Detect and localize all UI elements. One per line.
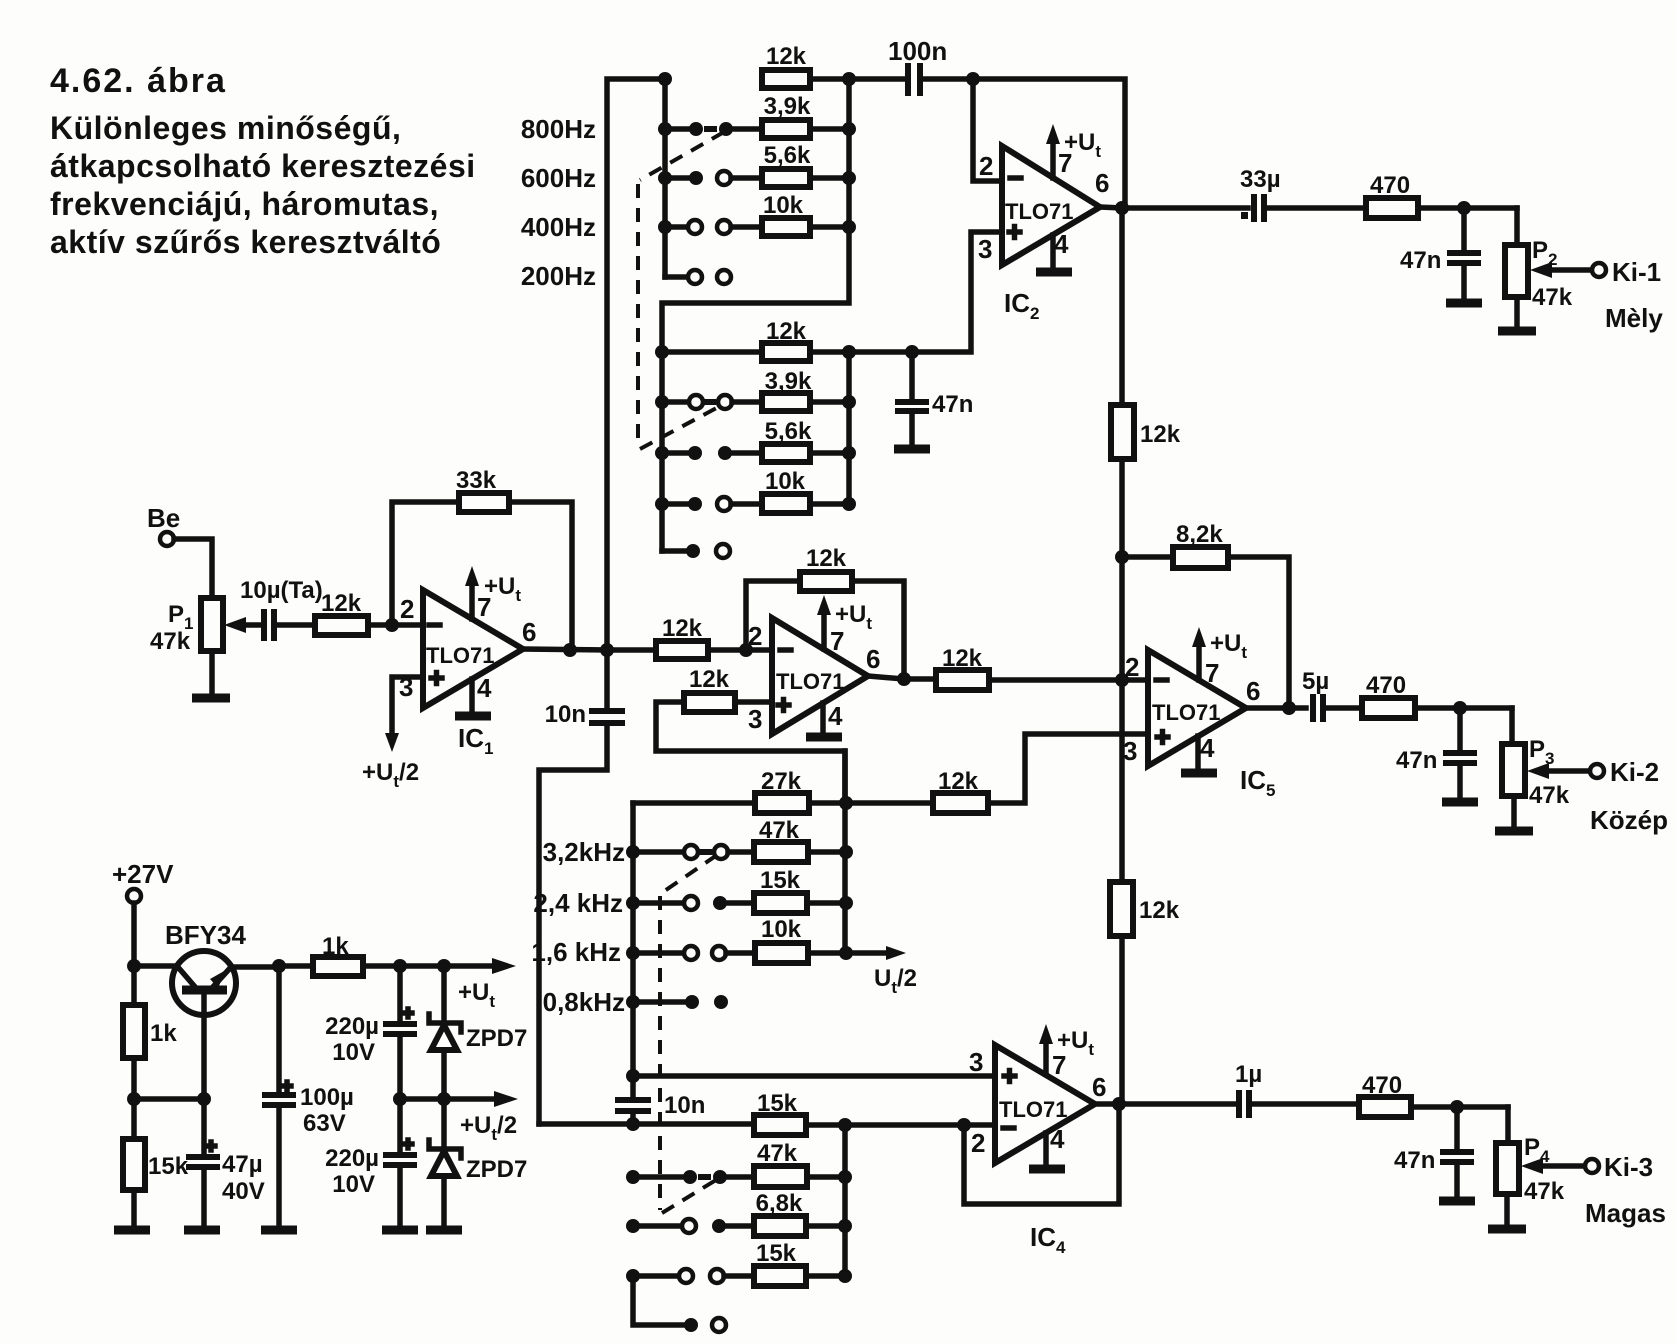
vertical bus IC2 out down to IC4 — [1119, 208, 1125, 1104]
IC1 pin4 ground — [469, 679, 475, 712]
svg-text:2,4 kHz: 2,4 kHz — [533, 888, 623, 918]
svg-text:1µ: 1µ — [1235, 1061, 1262, 1088]
svg-text:47k: 47k — [757, 1140, 798, 1167]
svg-text:10k: 10k — [763, 192, 804, 219]
svg-text:2: 2 — [971, 1128, 985, 1158]
IC2 pin4 ground — [1050, 235, 1056, 268]
node IC4 pin2 — [957, 1118, 971, 1132]
Ut/2 arrow at bank3 — [846, 950, 890, 956]
capacitor 5µ — [1302, 668, 1362, 722]
svg-text:15k: 15k — [760, 867, 801, 894]
node base junction — [127, 1092, 141, 1106]
capacitor 47n (Ki-1) — [1400, 208, 1482, 303]
node Ki-2 filter — [1453, 701, 1467, 715]
svg-text:4: 4 — [1054, 229, 1069, 259]
wire Be to P1 — [174, 539, 212, 598]
wire base line — [134, 1096, 204, 1102]
svg-text:+Ut/2: +Ut/2 — [362, 759, 419, 791]
resistor 12k (input to IC1) — [315, 590, 423, 635]
svg-text:Közép: Közép — [1590, 805, 1668, 835]
wire IC1 output — [523, 649, 607, 650]
svg-text:6,8k: 6,8k — [756, 1190, 803, 1217]
op-amp U4 IC4 TLO71 — [969, 1024, 1106, 1257]
svg-text:3: 3 — [978, 234, 992, 264]
wire Ut/2 rail — [400, 1096, 492, 1102]
svg-text:Ki-1: Ki-1 — [1612, 257, 1661, 287]
op-amp U2 IC2 TLO71 — [978, 124, 1109, 323]
svg-text:10n: 10n — [545, 701, 586, 728]
svg-text:10n: 10n — [664, 1092, 705, 1119]
node IC1 pin2 — [385, 618, 399, 632]
IC4 +Ut supply arrow — [1043, 1040, 1049, 1074]
svg-text:6: 6 — [866, 644, 880, 674]
resistor 470 (Ki-2) — [1362, 672, 1512, 718]
svg-text:2: 2 — [400, 594, 414, 624]
wire IC5 pin3 staircase from bank3 — [988, 734, 1148, 803]
U3 pin4 ground — [820, 703, 826, 733]
resistor 27k bank3 row0 — [633, 768, 933, 813]
switch row bank2-2 (3,9k) — [655, 368, 849, 411]
capacitor 47n (Ki-2) — [1396, 708, 1478, 802]
resistor 470 (Ki-3) — [1359, 1072, 1508, 1117]
svg-text:7: 7 — [1052, 1050, 1066, 1080]
svg-text:220µ: 220µ — [325, 1145, 379, 1172]
title text block — [50, 62, 476, 260]
wire IC4 output — [1095, 1101, 1234, 1107]
svg-text:TLO71: TLO71 — [426, 643, 494, 668]
svg-text:47k: 47k — [150, 628, 191, 655]
svg-text:0,8kHz: 0,8kHz — [543, 987, 625, 1017]
svg-text:P3: P3 — [1529, 736, 1554, 768]
switch row bank2-4 (10k) — [655, 468, 849, 513]
svg-text:4: 4 — [1200, 733, 1215, 763]
svg-text:frekvenciájú, háromutas,: frekvenciájú, háromutas, — [50, 186, 439, 222]
resistor 8,2k feedback IC5 — [1122, 521, 1289, 708]
node 220µ upper — [393, 959, 407, 973]
svg-text:12k: 12k — [806, 545, 847, 572]
svg-text:7: 7 — [830, 626, 844, 656]
IC5 +Ut supply arrow — [1196, 643, 1202, 680]
transistor Q1 BFY34 — [134, 920, 279, 1099]
svg-text:47k: 47k — [1524, 1178, 1565, 1205]
switch row bank2-5 (empty) — [662, 544, 730, 558]
svg-text:2: 2 — [1125, 652, 1139, 682]
switch row bank2-3 (5,6k) — [655, 418, 849, 462]
svg-text:átkapcsolható keresztezési: átkapcsolható keresztezési — [50, 148, 476, 184]
svg-text:10V: 10V — [332, 1039, 375, 1066]
svg-text:TLO71: TLO71 — [1152, 700, 1220, 725]
wire vertical bus from IC1 output up to filter bank 1 — [607, 79, 665, 650]
svg-text:5µ: 5µ — [1302, 668, 1329, 695]
svg-text:12k: 12k — [1140, 421, 1181, 448]
resistor 12k feedback U3 — [746, 545, 904, 679]
resistor 12k bank2 row0 — [655, 318, 912, 361]
wire bank3 rail to IC4 pin3 — [633, 1073, 995, 1079]
switch row 2,4kHz — [626, 867, 846, 913]
svg-text:15k: 15k — [756, 1240, 797, 1267]
node 47n junction — [905, 345, 919, 359]
wire IC2 output — [1100, 207, 1248, 208]
capacitor 1µ — [1235, 1061, 1359, 1118]
svg-text:7: 7 — [1205, 658, 1219, 688]
node 8,2k junction — [1115, 550, 1129, 564]
svg-text:4.62. ábra: 4.62. ábra — [50, 62, 227, 100]
capacitor 47n (Ki-3) — [1394, 1107, 1475, 1201]
bank3 right rail — [842, 751, 848, 953]
svg-text:6: 6 — [1246, 676, 1260, 706]
capacitor 10µ(Ta) — [240, 577, 323, 641]
svg-text:33k: 33k — [456, 467, 497, 494]
svg-text:100µ: 100µ — [300, 1084, 354, 1111]
resistor 12k U3 out — [936, 645, 989, 690]
svg-text:33µ: 33µ — [1240, 166, 1281, 193]
svg-text:3,2kHz: 3,2kHz — [543, 837, 625, 867]
op-amp U3 TLO71 (middle) — [748, 595, 880, 737]
op-amp U5 IC5 TLO71 — [1123, 627, 1275, 800]
svg-text:TLO71: TLO71 — [776, 669, 844, 694]
svg-text:5,6k: 5,6k — [764, 142, 811, 169]
svg-text:4: 4 — [1050, 1124, 1065, 1154]
svg-text:P2: P2 — [1532, 237, 1557, 269]
svg-text:IC1: IC1 — [458, 723, 493, 758]
wire 100n node down to IC2 pin2 — [973, 79, 1002, 181]
node Ki-3 filter — [1450, 1100, 1464, 1114]
svg-text:40V: 40V — [222, 1178, 265, 1205]
svg-text:47n: 47n — [1396, 747, 1437, 774]
svg-text:Be: Be — [147, 503, 180, 533]
svg-text:12k: 12k — [766, 43, 807, 70]
svg-text:220µ: 220µ — [325, 1013, 379, 1040]
svg-text:10k: 10k — [765, 468, 806, 495]
potentiometer P4 47k — [1488, 1107, 1599, 1229]
svg-text:Ki-3: Ki-3 — [1604, 1152, 1653, 1182]
resistor 12k bank3 to IC5 pin3 — [933, 768, 988, 813]
svg-text:200Hz: 200Hz — [521, 261, 596, 291]
resistor 15k (base divider lower) — [114, 1099, 189, 1230]
U3 +Ut supply arrow — [821, 611, 827, 649]
bank4 right rail — [842, 1125, 848, 1276]
switch row 6,8k — [626, 1190, 845, 1236]
node IC4 pin3 junction — [626, 1069, 640, 1083]
+Ut/2 arrow (supply output) — [494, 1091, 518, 1107]
capacitor 100µ 63V — [261, 966, 354, 1230]
svg-text:12k: 12k — [689, 666, 730, 693]
capacitor 100n (IC2 feedback) — [849, 36, 1125, 209]
svg-text:3,9k: 3,9k — [764, 93, 811, 120]
capacitor 220µ 10V (upper) — [325, 966, 417, 1099]
+27V terminal — [112, 859, 174, 966]
svg-text:Mèly: Mèly — [1605, 303, 1663, 333]
switch row 47k — [626, 1140, 845, 1187]
switch row 800Hz with contacts — [658, 122, 762, 136]
svg-text:Ki-2: Ki-2 — [1610, 757, 1659, 787]
svg-text:8,2k: 8,2k — [1176, 521, 1223, 548]
resistor 5,6k bank1 — [762, 142, 849, 187]
switch row 1,6kHz — [626, 916, 846, 963]
svg-text:470: 470 — [1366, 672, 1406, 699]
svg-text:600Hz: 600Hz — [521, 163, 596, 193]
filter bank 1 left rail — [662, 79, 668, 277]
bank3 left rail — [630, 803, 636, 1098]
resistor 12k IC1out to U3 — [607, 615, 772, 659]
switch row 600Hz — [658, 171, 762, 185]
svg-text:12k: 12k — [1139, 897, 1180, 924]
node emitter rail 100µ — [272, 959, 286, 973]
row 15k (permanent) — [539, 1090, 995, 1135]
P1 ground — [209, 651, 215, 694]
svg-text:47k: 47k — [1532, 284, 1573, 311]
capacitor 10n (upper) — [539, 650, 625, 1124]
svg-text:IC5: IC5 — [1240, 765, 1275, 800]
IC4 pin4 ground — [1043, 1133, 1049, 1164]
resistor 12k vertical upper — [1111, 405, 1181, 459]
bank2 right rail — [846, 352, 852, 504]
switch row 200Hz (no resistor) — [665, 270, 731, 284]
potentiometer P1 47k — [150, 598, 262, 698]
svg-text:15k: 15k — [148, 1153, 189, 1180]
resistor 33k feedback IC1 — [392, 467, 572, 650]
svg-text:10µ(Ta): 10µ(Ta) — [240, 577, 323, 604]
svg-text:Magas: Magas — [1585, 1198, 1666, 1228]
resistor 1k (base divider upper) — [123, 966, 177, 1099]
svg-text:Különleges minőségű,: Különleges minőségű, — [50, 110, 401, 146]
node Ki-1 filter — [1457, 201, 1471, 215]
svg-text:6: 6 — [1095, 168, 1109, 198]
svg-text:4: 4 — [828, 701, 843, 731]
svg-text:BFY34: BFY34 — [165, 920, 246, 950]
svg-text:470: 470 — [1370, 172, 1410, 199]
wire IC5 output — [1246, 705, 1306, 711]
zener diode ZPD7 (upper) — [429, 966, 527, 1099]
svg-text:63V: 63V — [303, 1110, 346, 1137]
IC5 pin4 ground — [1195, 736, 1201, 769]
svg-text:+Ut/2: +Ut/2 — [460, 1112, 517, 1144]
zener diode ZPD7 (lower) — [426, 1099, 527, 1230]
switch row 0,8kHz — [626, 995, 728, 1009]
switch row 3,2kHz — [626, 817, 846, 862]
node U3 pin2 — [739, 643, 753, 657]
resistor 12k vertical lower — [1110, 882, 1180, 936]
capacitor 47n (bank2 to ground) — [894, 352, 973, 449]
svg-text:6: 6 — [1092, 1072, 1106, 1102]
capacitor 10n (lower, in rail) — [615, 1092, 705, 1124]
resistor 10k bank1 — [762, 192, 849, 236]
wire bank2 to IC2 pin3 — [912, 232, 1002, 352]
IC1 pin3 wire to +Ut/2 — [392, 677, 423, 738]
resistor 12k bank1 row0 — [762, 43, 849, 88]
switch row 400Hz — [658, 220, 762, 234]
svg-text:ZPD7: ZPD7 — [466, 1025, 527, 1052]
svg-text:5,6k: 5,6k — [765, 418, 812, 445]
svg-text:47n: 47n — [932, 391, 973, 418]
resistor 12k U3 pin3 — [656, 666, 845, 803]
svg-text:12k: 12k — [662, 615, 703, 642]
IC1 +Ut supply arrow pin7 — [469, 582, 475, 619]
svg-text:+27V: +27V — [112, 859, 174, 889]
svg-text:IC2: IC2 — [1004, 288, 1039, 323]
capacitor 220µ 10V (lower) — [325, 1099, 418, 1230]
svg-text:3: 3 — [1123, 736, 1137, 766]
svg-text:Ut/2: Ut/2 — [874, 965, 917, 997]
input terminal Be — [147, 503, 212, 598]
svg-text:IC4: IC4 — [1030, 1222, 1066, 1257]
node zener upper — [437, 959, 451, 973]
potentiometer P2 47k — [1498, 208, 1606, 331]
svg-text:47n: 47n — [1400, 247, 1441, 274]
dashed wiper coupling bank1 — [640, 132, 724, 180]
switch row empty (bottom) — [633, 1276, 726, 1332]
svg-text:1,6 kHz: 1,6 kHz — [531, 937, 621, 967]
potentiometer P3 47k — [1495, 708, 1604, 831]
wire U3 output to IC5 pin2 — [868, 676, 1148, 680]
svg-text:3: 3 — [748, 704, 762, 734]
bank1 right rail — [662, 79, 849, 551]
svg-text:3: 3 — [969, 1047, 983, 1077]
svg-text:47µ: 47µ — [222, 1151, 263, 1178]
svg-text:10k: 10k — [761, 916, 802, 943]
svg-text:TLO71: TLO71 — [1005, 199, 1073, 224]
P1 wiper arrow — [240, 622, 262, 628]
capacitor 33µ — [1240, 166, 1366, 222]
svg-text:400Hz: 400Hz — [521, 212, 596, 242]
svg-text:TLO71: TLO71 — [999, 1097, 1067, 1122]
svg-text:4: 4 — [477, 673, 492, 703]
node Ut/2 rail — [393, 1092, 407, 1106]
resistor 1k (series) — [279, 933, 490, 976]
svg-text:2: 2 — [979, 151, 993, 181]
svg-text:aktív szűrős keresztváltó: aktív szűrős keresztváltó — [50, 224, 441, 260]
svg-text:800Hz: 800Hz — [521, 114, 596, 144]
svg-text:+Ut: +Ut — [458, 979, 495, 1011]
svg-text:10V: 10V — [332, 1171, 375, 1198]
capacitor 47µ 40V — [184, 1099, 265, 1230]
resistor 3,9k bank1 — [762, 93, 849, 138]
svg-text:1k: 1k — [150, 1020, 177, 1047]
IC2 +Ut supply arrow — [1050, 140, 1056, 178]
op-amp U1 IC1 TLO71 — [362, 566, 536, 791]
dashed wiper coupling bank3-4 — [663, 855, 717, 892]
svg-text:47k: 47k — [1529, 782, 1570, 809]
svg-text:ZPD7: ZPD7 — [466, 1156, 527, 1183]
resistor 470 (Ki-1) — [1366, 172, 1517, 218]
svg-text:6: 6 — [522, 617, 536, 647]
+Ut arrow (supply output) — [492, 958, 516, 974]
svg-text:12k: 12k — [321, 590, 362, 617]
node +27V rail — [127, 959, 141, 973]
svg-text:47n: 47n — [1394, 1147, 1435, 1174]
wire IC4 feedback loop — [964, 1104, 1119, 1204]
switch row 15k (bottom) — [626, 1240, 845, 1286]
svg-text:100n: 100n — [888, 36, 947, 66]
